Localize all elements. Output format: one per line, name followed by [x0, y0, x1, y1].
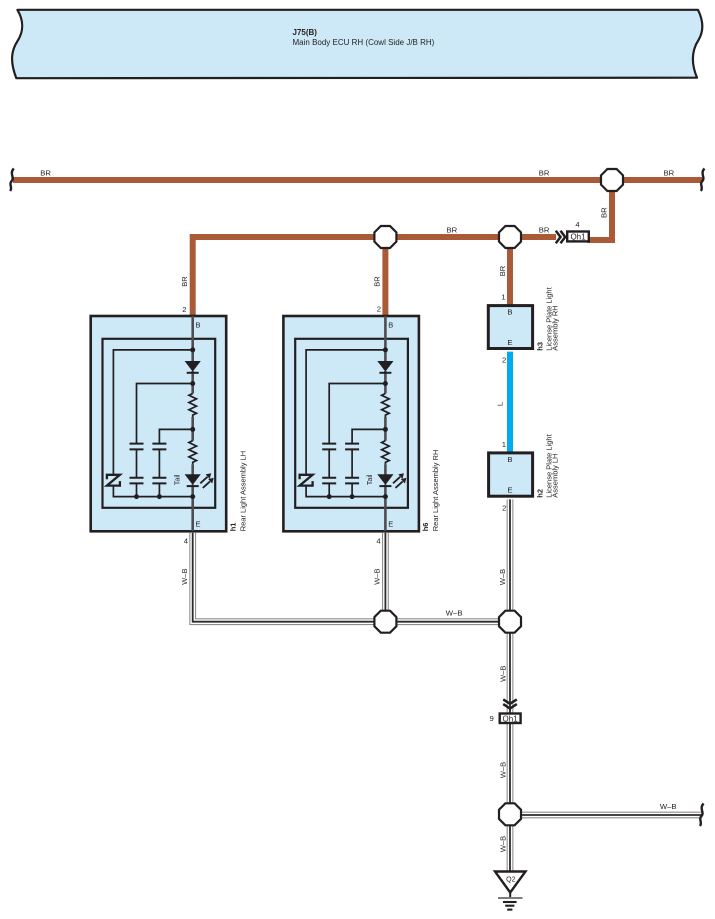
- svg-text:W–B: W–B: [498, 836, 507, 852]
- component box h1: [91, 316, 227, 531]
- junction node octagon B: [374, 226, 396, 248]
- junction node octagon E: [499, 611, 521, 633]
- capacitor C7: [345, 444, 359, 450]
- svg-text:2: 2: [377, 304, 381, 313]
- svg-text:E: E: [507, 485, 512, 494]
- capacitor C5: [322, 444, 336, 450]
- svg-text:h1: h1: [229, 523, 238, 532]
- svg-text:B: B: [196, 321, 201, 330]
- wire C2 to bottom rail: [136, 483, 138, 496]
- svg-text:L: L: [496, 402, 505, 406]
- wire between C7 and C8: [351, 449, 353, 477]
- wire W-B branch right: [510, 812, 701, 819]
- svg-text:2: 2: [502, 504, 506, 513]
- LED arrows: [200, 477, 210, 488]
- wire left branch to Z h6: [306, 350, 385, 497]
- wire left branch to Z: [113, 350, 192, 497]
- diode D1: [185, 361, 201, 372]
- svg-text:Main Body ECU RH (Cowl Side J/: Main Body ECU RH (Cowl Side J/B RH): [293, 38, 435, 47]
- svg-text:Tail: Tail: [367, 474, 374, 485]
- wire branch to capacitor column 1 h6: [329, 384, 385, 444]
- wire W-B h1 to rail: [193, 533, 510, 622]
- connector chevrons into Qh1 bottom: [503, 699, 517, 708]
- svg-text:E: E: [507, 338, 512, 347]
- svg-text:BR: BR: [539, 226, 550, 235]
- junction node octagon A: [601, 169, 623, 191]
- ground point Q2 triangle: [495, 872, 526, 893]
- svg-text:W–B: W–B: [446, 609, 463, 618]
- svg-text:BR: BR: [498, 265, 507, 276]
- svg-text:9: 9: [490, 714, 494, 723]
- junction node octagon F: [499, 803, 521, 825]
- svg-text:2: 2: [502, 356, 506, 365]
- wire C6 to bottom rail: [328, 483, 330, 496]
- junction dot bottom rail main h6: [383, 494, 388, 499]
- svg-text:W–B: W–B: [498, 569, 507, 585]
- inner boundary box: [103, 339, 216, 508]
- svg-text:1: 1: [502, 440, 506, 449]
- resistor R4: [382, 441, 390, 465]
- junction dot bottom rail C2: [157, 494, 162, 499]
- svg-text:h6: h6: [421, 523, 430, 532]
- capacitor C2: [130, 478, 144, 484]
- svg-text:BR: BR: [600, 207, 609, 218]
- svg-text:W–B: W–B: [498, 666, 507, 682]
- junction dot node 2: [190, 381, 195, 386]
- resistor R1: [189, 394, 197, 418]
- license plate light h2 box: [489, 433, 560, 497]
- wire BR drop to h6: [382, 237, 388, 317]
- wire BR drop to h3: [507, 237, 513, 306]
- capacitor C8: [345, 478, 359, 484]
- connector banner J75(B) Main Body ECU RH: [12, 10, 702, 78]
- capacitor C4: [152, 478, 166, 484]
- LED tail lamp h6: [377, 474, 393, 485]
- wire between C3 and C4: [158, 449, 160, 477]
- resistor R3: [382, 394, 390, 418]
- svg-text:Q2: Q2: [506, 877, 515, 884]
- junction node octagon C: [499, 226, 521, 248]
- wire pin B lead h6: [384, 316, 387, 350]
- component box h6: [283, 316, 419, 531]
- svg-text:W–B: W–B: [373, 568, 382, 584]
- svg-text:B: B: [388, 321, 393, 330]
- junction dot node 3: [190, 427, 195, 432]
- wire BR vertical from node A down to second run: [587, 180, 612, 240]
- junction dot node 3 h6: [383, 427, 388, 432]
- junction dot bottom rail C1: [134, 494, 139, 499]
- svg-text:Qh1: Qh1: [570, 233, 586, 242]
- svg-text:B: B: [507, 455, 512, 464]
- wire branch to capacitor column 2: [159, 429, 192, 443]
- svg-text:4: 4: [376, 536, 381, 545]
- svg-text:W–B: W–B: [180, 568, 189, 584]
- capacitor C1: [130, 444, 144, 450]
- svg-text:Assembly RH: Assembly RH: [551, 305, 560, 350]
- svg-text:BR: BR: [180, 276, 189, 287]
- diode D2: [377, 361, 393, 372]
- LED arrows h6: [393, 477, 403, 488]
- svg-text:4: 4: [575, 220, 580, 229]
- wire branch to capacitor column 2 h6: [352, 429, 385, 443]
- svg-text:W–B: W–B: [660, 802, 677, 811]
- wire BR second horizontal run: [193, 237, 556, 317]
- continuation squiggle left of BR wire: [10, 169, 14, 192]
- junction dot node 1 h6: [383, 347, 388, 352]
- svg-text:2: 2: [182, 305, 186, 314]
- ground symbol: [498, 898, 523, 910]
- wire branch to capacitor column 1: [137, 384, 193, 444]
- connector chevrons into Qh1 top: [556, 231, 565, 243]
- svg-text:h3: h3: [535, 342, 544, 351]
- wire pin E lead h6: [384, 497, 387, 531]
- svg-text:BR: BR: [40, 168, 51, 177]
- ground stem: [509, 893, 511, 899]
- svg-text:B: B: [507, 308, 512, 317]
- LED tail lamp: [185, 474, 201, 485]
- wire C4 to bottom rail: [158, 483, 160, 496]
- svg-text:J75(B): J75(B): [293, 28, 318, 37]
- svg-text:Rear Light Assembly LH: Rear Light Assembly LH: [238, 451, 247, 531]
- junction dot node 1: [190, 347, 195, 352]
- wire between C5 and C6: [328, 449, 330, 477]
- svg-text:E: E: [196, 520, 201, 529]
- junction dot bottom rail C7: [350, 494, 355, 499]
- wire L blue h3 to h2: [507, 352, 513, 452]
- continuation squiggle right W-B: [700, 804, 704, 827]
- varistor Z symbol h6: [300, 475, 313, 486]
- svg-text:1: 1: [501, 293, 505, 302]
- varistor Z symbol: [107, 475, 120, 486]
- svg-text:Assembly LH: Assembly LH: [551, 454, 560, 498]
- capacitor C3: [152, 444, 166, 450]
- wire main vertical segments h6: [384, 350, 387, 497]
- wire pin B lead: [191, 316, 194, 350]
- continuation squiggle right of BR wire: [701, 169, 705, 192]
- capacitor C6: [322, 478, 336, 484]
- junction node octagon D: [374, 611, 396, 633]
- junction dot bottom rail C5: [327, 494, 332, 499]
- wire W-B h6 drop: [382, 533, 389, 622]
- svg-text:BR: BR: [447, 226, 458, 235]
- wire between C1 and C2: [136, 449, 138, 477]
- wire main vertical segments: [191, 350, 194, 497]
- svg-text:BR: BR: [373, 276, 382, 287]
- junction dot bottom rail main: [190, 494, 195, 499]
- resistor R2: [189, 441, 197, 465]
- svg-text:Tail: Tail: [174, 474, 181, 485]
- wire pin E lead: [191, 497, 194, 531]
- license plate light h3 box: [488, 286, 559, 350]
- wire C8 to bottom rail: [351, 483, 353, 496]
- svg-text:BR: BR: [664, 168, 675, 177]
- svg-text:W–B: W–B: [498, 762, 507, 778]
- svg-text:Rear Light Assembly RH: Rear Light Assembly RH: [431, 450, 440, 532]
- svg-text:Qh1: Qh1: [503, 714, 519, 723]
- wire W-B h2 drop down to ground: [507, 499, 514, 871]
- svg-text:4: 4: [184, 536, 189, 545]
- connector Qh1 top box: [567, 232, 589, 242]
- svg-text:BR: BR: [539, 168, 550, 177]
- svg-text:h2: h2: [535, 489, 544, 498]
- connector Qh1 bottom box: [500, 714, 521, 724]
- wire BR main horizontal top: [13, 177, 702, 183]
- junction dot node 2 h6: [383, 381, 388, 386]
- svg-text:E: E: [388, 520, 393, 529]
- inner boundary box h6: [295, 339, 408, 508]
